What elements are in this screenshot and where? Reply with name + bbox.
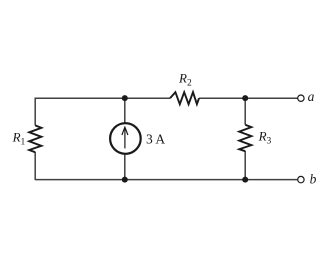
wire: bottom horizontal segment <box>35 179 297 181</box>
node junction dot: top of R3 <box>242 95 248 101</box>
svg-text:R2: R2 <box>178 71 192 89</box>
svg-text:a: a <box>308 89 315 104</box>
resistor R1 (vertical zigzag) <box>29 125 41 152</box>
wire: R3 branch upper <box>244 98 246 125</box>
terminal a (open circle) <box>298 95 304 101</box>
terminal b (open circle) <box>298 176 304 182</box>
wire: current-source branch upper <box>124 98 126 124</box>
wire: left vertical lower segment <box>34 152 36 180</box>
svg-text:b: b <box>310 172 317 187</box>
node junction dot: bottom of current source <box>122 177 128 183</box>
wire: top-right horizontal segment <box>199 97 298 99</box>
current source arrow (pointing up) <box>122 127 128 148</box>
wire: left vertical upper segment <box>34 98 36 126</box>
svg-text:R1: R1 <box>12 129 26 147</box>
svg-text:R3: R3 <box>258 129 272 147</box>
node junction dot: bottom of R3 <box>242 177 248 183</box>
node junction dot: top of current source <box>122 95 128 101</box>
wire: current-source branch lower <box>124 154 126 180</box>
svg-text:3 A: 3 A <box>146 131 165 146</box>
wire: top-left horizontal segment <box>35 97 170 99</box>
current source I1 (circle) <box>110 123 141 154</box>
resistor R3 (vertical zigzag) <box>239 125 251 152</box>
resistor R2 (horizontal zigzag) <box>170 92 199 104</box>
wire: R3 branch lower <box>244 151 246 180</box>
